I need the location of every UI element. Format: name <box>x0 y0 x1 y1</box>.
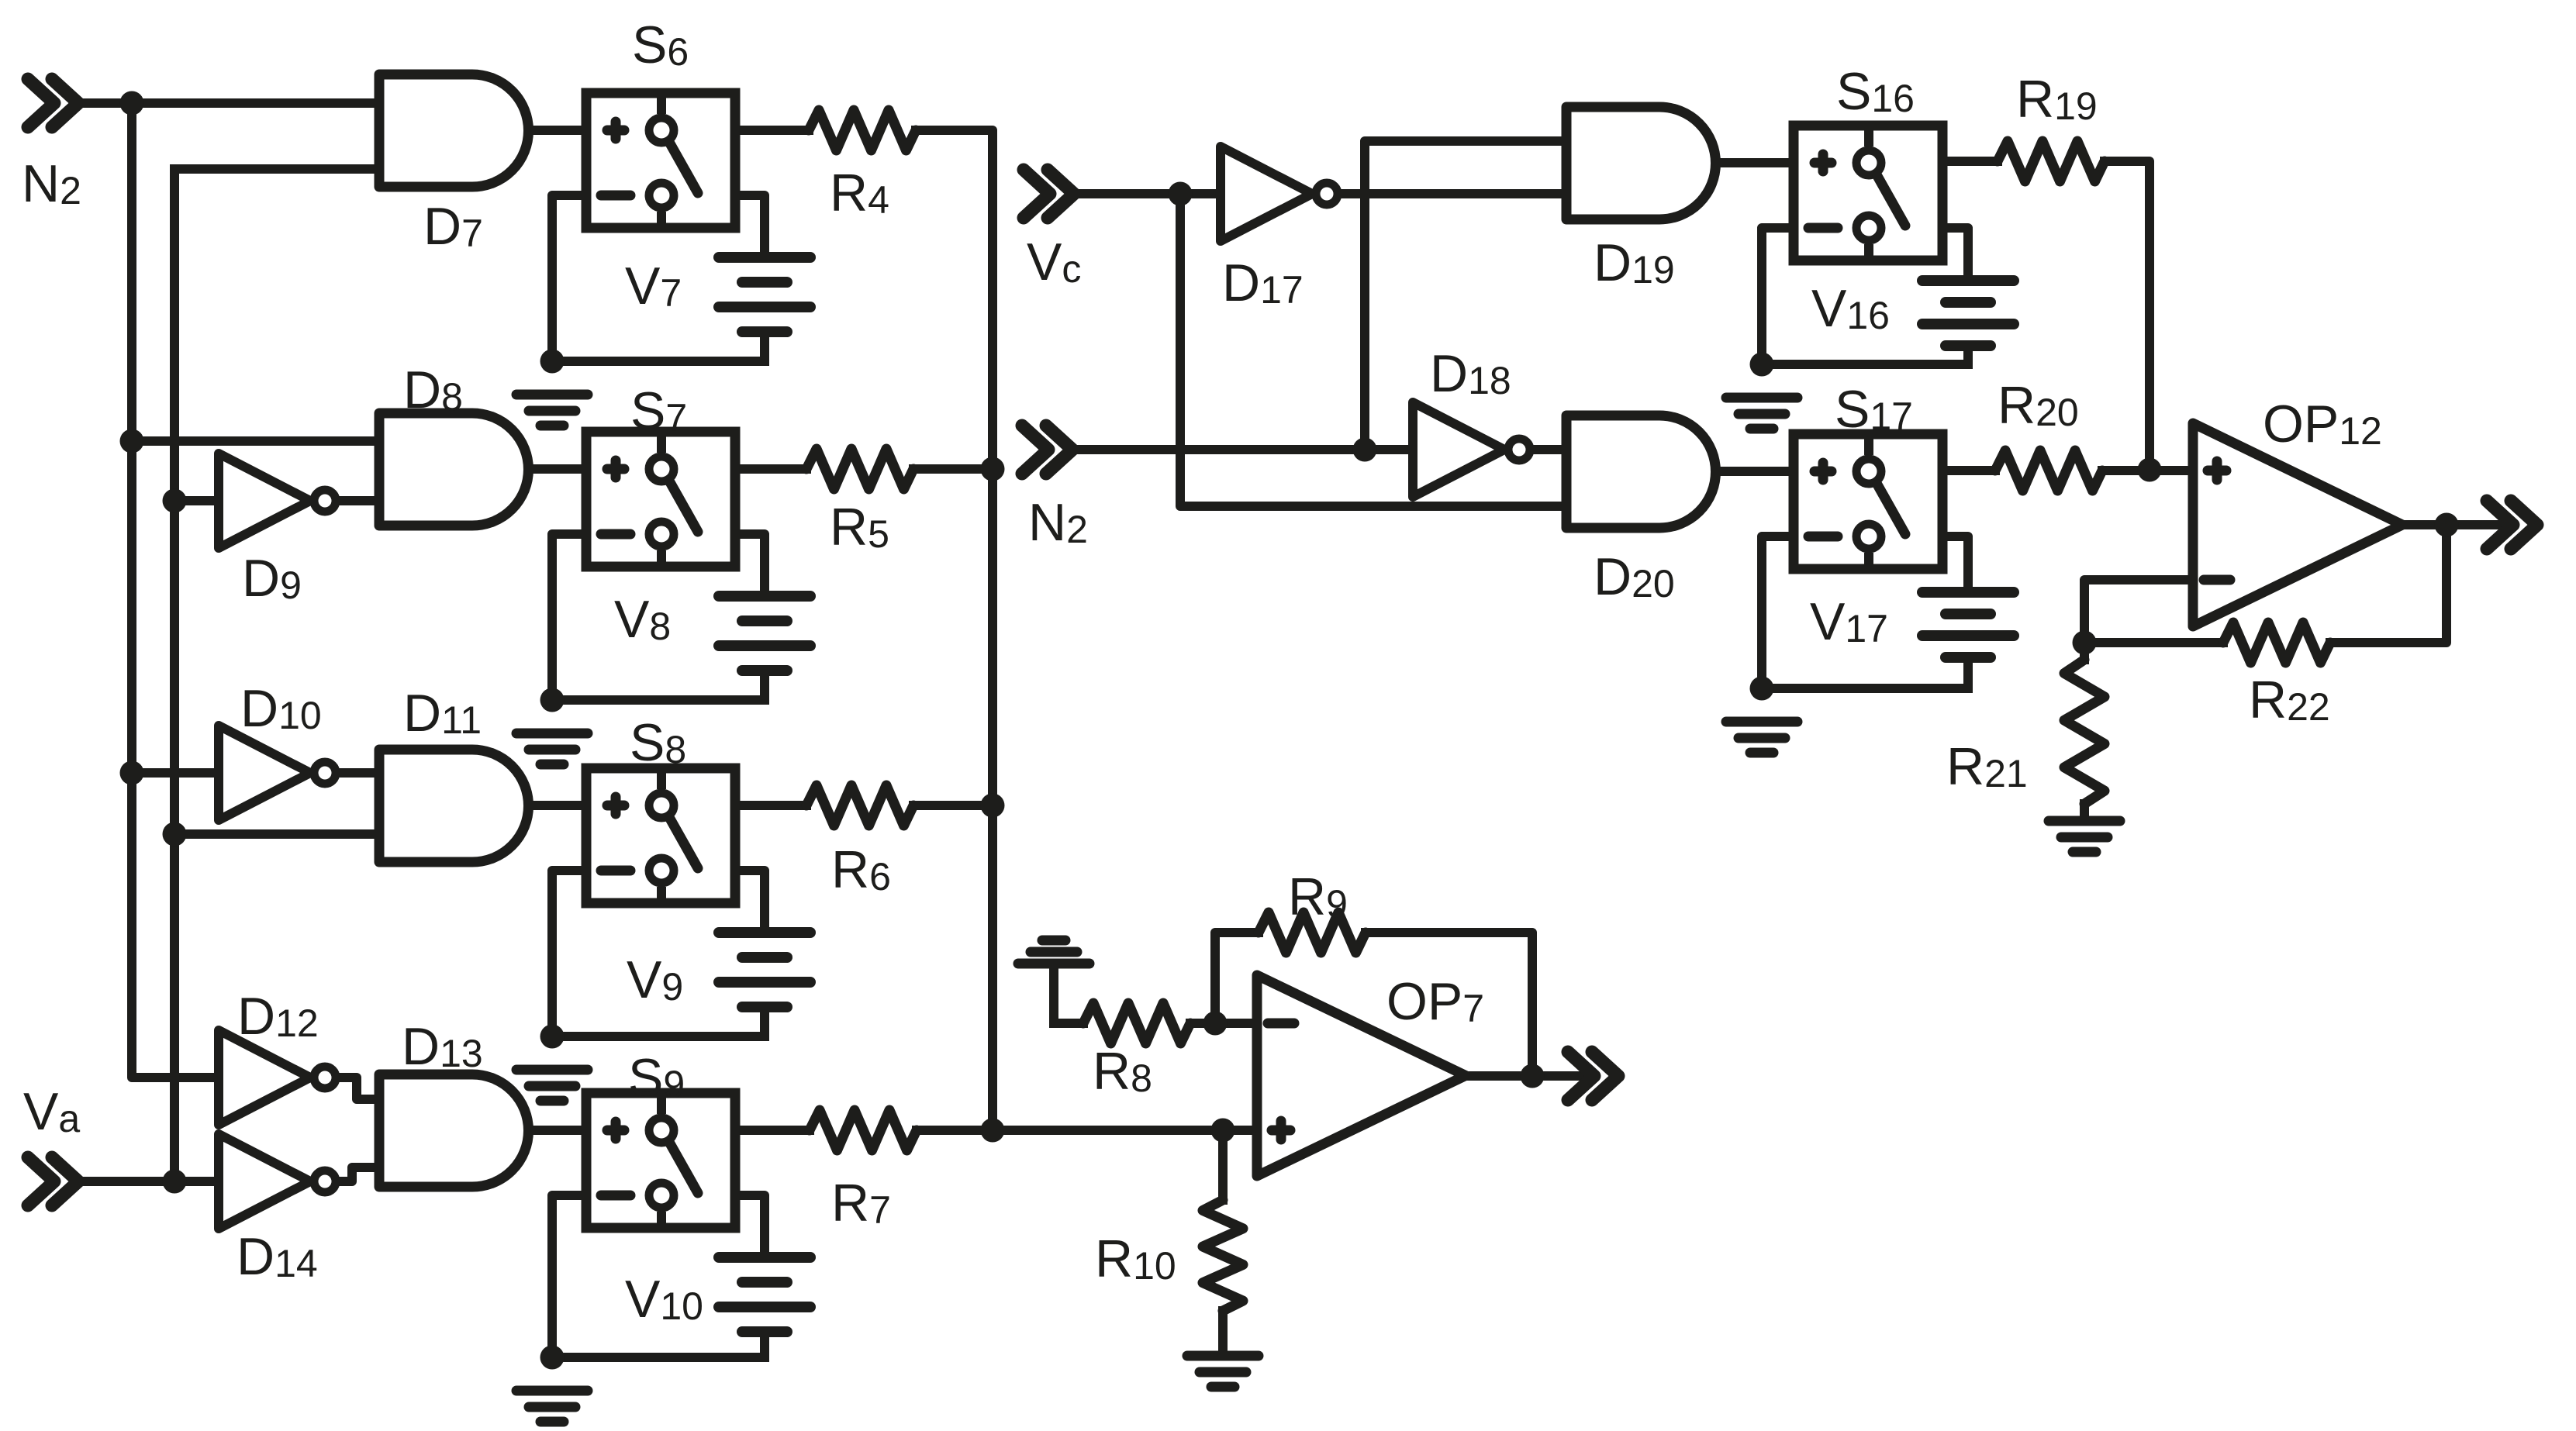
wire Va vertical bus <box>170 169 179 1181</box>
wire R5 to bus <box>913 464 993 474</box>
wire S9 minus-side to battery V10 <box>735 1195 765 1257</box>
wire D17 output to D19 bottom input <box>1343 189 1566 198</box>
wire R20 to OP12 + input <box>2102 466 2193 475</box>
wire D7 bottom input <box>174 164 379 174</box>
switch S17 <box>1794 434 1942 569</box>
inverter D12 <box>219 1030 336 1125</box>
wire Va bus to D9 input <box>174 496 219 505</box>
resistor R19 <box>1998 141 2105 181</box>
wire feedback node to R21 <box>2080 643 2089 660</box>
wire V10 bottom rail <box>552 1353 765 1362</box>
wire S7 minus-side to battery V8 <box>735 534 765 596</box>
wire N2 bus to D10 input <box>132 768 219 778</box>
AND gate D13 <box>379 1074 529 1187</box>
resistor R6 <box>806 785 913 826</box>
wire N2 input to D18 <box>1075 445 1413 454</box>
wire R19 down to OP12 + node <box>2105 161 2150 470</box>
wire V16 bottom rail <box>1762 360 1968 369</box>
wire D13 output to S9 <box>528 1126 586 1135</box>
wire N2 up to D19 top input <box>1365 141 1566 450</box>
wire S8 minus-side to battery V9 <box>735 871 765 933</box>
junction V17 ground node <box>1750 677 1774 701</box>
wire bus to OP7 + input <box>993 1126 1257 1135</box>
wire OP12 - input to feedback node <box>2084 580 2193 643</box>
resistor R20 <box>1995 450 2102 491</box>
wire R21 to ground <box>2080 804 2089 816</box>
inverter D14 <box>219 1134 336 1229</box>
wire V16 bottom lead <box>1963 346 1973 364</box>
wire V7 bottom rail <box>552 357 765 366</box>
wire D14 output to D13 bottom input <box>341 1167 379 1181</box>
battery V10 <box>719 1257 810 1332</box>
inverter D17 <box>1221 147 1338 241</box>
junction OP7 - node <box>1203 1012 1228 1036</box>
junction N2 node <box>120 91 144 116</box>
wire OP12 output <box>2402 520 2503 529</box>
wire S17 to R20 <box>1942 466 1995 475</box>
wire D10 output to D11 top input <box>341 768 379 778</box>
wire V17 bottom lead <box>1963 657 1973 688</box>
resistor R21 <box>2064 660 2105 804</box>
inverter D10 <box>219 726 336 820</box>
wire OP7 - node up to R9 <box>1215 933 1259 1023</box>
AND gate D7 <box>379 74 529 187</box>
wire D12 output to D13 top input <box>341 1078 379 1099</box>
wire OP7 + node down to R10 <box>1218 1130 1228 1200</box>
junction OP12 output node <box>2435 513 2459 537</box>
junction V9 ground node <box>540 1025 565 1049</box>
wire D19 output to S16 <box>1715 158 1794 167</box>
junction OP7 + node <box>1211 1119 1235 1143</box>
wire D9 output to D8 bottom input <box>341 496 379 505</box>
wire Va bus to D11 bottom input <box>174 829 379 839</box>
wire S7 to R5 <box>735 464 806 474</box>
wire S6 minus to ground rail <box>552 195 586 361</box>
junction bus/R7 <box>981 1119 1005 1143</box>
junction OP12 feedback node <box>2073 631 2097 655</box>
inverter D9 <box>219 453 336 548</box>
wire N2 input to D7 top input <box>76 98 379 108</box>
switch S8 <box>586 768 735 903</box>
junction OP7 output node <box>1521 1064 1545 1088</box>
wire S9 minus to ground rail <box>552 1195 586 1357</box>
ground under V8 <box>516 733 588 764</box>
AND gate D19 <box>1566 107 1716 219</box>
output chevron OP12 <box>2487 501 2537 549</box>
battery V9 <box>719 933 810 1007</box>
junction on Va bus <box>163 489 187 513</box>
wire Vc input to D17 <box>1076 189 1221 198</box>
wire D7 output to S6 <box>528 126 586 135</box>
wire S16 minus to ground rail <box>1762 228 1794 364</box>
wire N2 vertical bus to D12 input <box>132 103 219 1078</box>
wire S17 minus-side to battery V17 <box>1942 536 1968 592</box>
input chevron N2 (middle) <box>1022 426 1072 474</box>
resistor R7 <box>810 1110 917 1150</box>
junction on N2 bus <box>120 761 144 785</box>
wire battery V9 bottom lead <box>760 1007 769 1036</box>
input chevron Vc <box>1024 170 1074 218</box>
junction V8 ground node <box>540 688 565 712</box>
AND gate D20 <box>1566 416 1716 528</box>
wire D18 output to D20 top input <box>1535 445 1566 454</box>
resistor R22 <box>2223 622 2330 663</box>
wire S16 to R19 <box>1942 157 1998 166</box>
battery V7 <box>719 257 810 332</box>
ground under V7 <box>516 395 588 426</box>
wire battery V7 bottom lead <box>760 332 769 361</box>
wire R22 up to OP12 output <box>2330 525 2447 643</box>
output chevron OP7 <box>1568 1052 1618 1100</box>
input chevron N2 <box>28 79 78 127</box>
wire ground flag to R8 <box>1054 1019 1083 1028</box>
wire feedback node to R22 <box>2084 638 2223 647</box>
wire S6 to R4 <box>735 126 809 135</box>
wire S9 to R7 <box>735 1126 810 1135</box>
battery V17 <box>1922 592 2014 657</box>
junction bus/R6 <box>981 794 1005 818</box>
battery V16 <box>1922 281 2014 346</box>
junction Va node <box>163 1170 187 1194</box>
wire R10 to ground <box>1218 1311 1228 1351</box>
switch S6 <box>586 93 735 228</box>
wire S7 minus to ground rail <box>552 534 586 700</box>
junction V7 ground node <box>540 350 565 374</box>
inverter D18 <box>1413 402 1530 497</box>
ground under V17 <box>1726 722 1797 753</box>
op-amp OP7 <box>1257 975 1466 1176</box>
wire S17 minus to ground rail <box>1762 536 1794 688</box>
junction Vc node <box>1169 182 1193 206</box>
junction V10 ground node <box>540 1346 565 1370</box>
wire D20 output to S17 <box>1715 467 1794 476</box>
wire R8 to OP7 - input <box>1190 1019 1257 1028</box>
junction N2 node (middle) <box>1353 438 1377 462</box>
resistor R5 <box>806 449 913 489</box>
wire R9 to OP7 output <box>1366 933 1532 1076</box>
wire R6 to bus <box>913 801 993 810</box>
wire N2 bus to D8 top input <box>132 436 379 446</box>
switch S7 <box>586 432 735 567</box>
wire V9 bottom rail <box>552 1032 765 1041</box>
junction bus/R5 <box>981 457 1005 481</box>
AND gate D8 <box>379 413 528 526</box>
resistor R8 <box>1083 1003 1190 1043</box>
wire R7 to bus <box>917 1126 993 1135</box>
wire Va input to D14 <box>76 1177 219 1186</box>
ground under V16 <box>1726 398 1797 429</box>
battery V8 <box>719 596 810 671</box>
wire OP7 output <box>1466 1071 1583 1081</box>
wire S6 minus-side to battery V7 <box>735 195 765 257</box>
wire S16 minus-side to battery V16 <box>1942 228 1968 281</box>
junction on N2 bus <box>120 429 144 453</box>
wire D8 output to S7 <box>528 464 586 474</box>
wire battery V10 bottom lead <box>760 1332 769 1357</box>
wire S8 to R6 <box>735 801 806 810</box>
input chevron Va <box>28 1157 78 1205</box>
junction V16 ground node <box>1750 353 1774 377</box>
resistor R10 <box>1203 1200 1243 1311</box>
ground under R10 <box>1187 1356 1259 1387</box>
wire V17 bottom rail <box>1762 684 1968 693</box>
switch S9 <box>586 1093 735 1228</box>
junction OP12 + node <box>2138 458 2162 482</box>
wire Vc down to D20 bottom input <box>1180 194 1566 506</box>
switch S16 <box>1794 126 1942 260</box>
resistor R4 <box>809 110 916 150</box>
ground under V9 <box>516 1070 588 1101</box>
wire D11 output to S8 <box>528 801 586 810</box>
op-amp OP12 <box>2193 423 2402 626</box>
ground under V10 <box>516 1391 588 1422</box>
wire V8 bottom rail <box>552 695 765 705</box>
ground under R21 <box>2049 821 2120 852</box>
wire battery V8 bottom lead <box>760 671 769 700</box>
junction on Va bus <box>163 822 187 847</box>
ground flag above R8 <box>1018 940 1089 1023</box>
resistor R9 <box>1259 912 1366 953</box>
AND gate D11 <box>379 750 529 862</box>
wire R4 to summing bus (vertical) <box>916 130 993 1130</box>
wire S8 minus to ground rail <box>552 871 586 1036</box>
